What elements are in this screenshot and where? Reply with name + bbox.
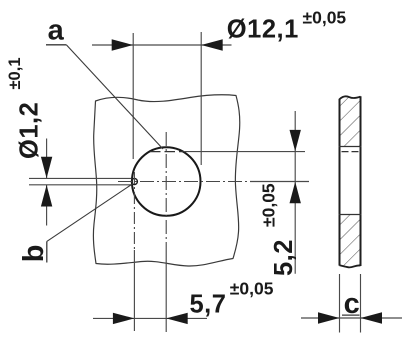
vertical centerline of big circle (dash-dot) [165,132,167,250]
arrow 5,7 right [166,313,188,324]
arrow Ø12,1 left [112,39,134,50]
svg-text:Ø1,2: Ø1,2 [15,102,43,159]
side view hole bottom edge [339,214,362,216]
side view hole top edge [339,146,362,148]
flat chord (hidden edge, dashed) [150,151,184,153]
dimension line 5,7 (bottom) [93,317,207,319]
extension of centerline to 5,2 dimension [250,181,309,183]
side view flat hidden edge (dashed) [342,151,362,153]
extension line left (Ø12,1) [132,33,134,159]
dimension line Ø12,1 [92,44,232,46]
svg-text:±0,05: ±0,05 [230,278,274,298]
svg-text:b: b [18,245,50,263]
arrow 5,7 left [113,313,134,324]
arrow c right [361,312,383,323]
vertical centerline extension of big circle to 5,7 dimension [165,250,167,332]
leader line b [47,184,133,242]
side view right edge [360,96,362,266]
side view bottom break edge (wavy) [340,265,361,267]
extension line c right [360,274,362,333]
svg-text:±0,1: ±0,1 [6,58,24,90]
underline of label c [342,314,360,316]
arrow c left [318,312,340,323]
panel outline (front view, wavy break edges) [93,95,239,266]
small hole bottom tangent extension line [29,184,131,186]
svg-text:±0,05: ±0,05 [259,183,279,227]
dimension line 5,2 (vertical, right) [294,111,296,274]
arrow Ø1,2 down [41,157,52,179]
side view: top hatched section [340,96,361,146]
leader line a [66,45,163,149]
svg-text:5,7: 5,7 [190,291,227,319]
arrow 5,2 down [290,130,301,152]
arrow 5,2 up [290,182,301,204]
underline of label a [46,44,66,46]
side view left edge [339,99,341,266]
side view top break edge (wavy) [340,96,361,99]
arrow Ø12,1 right [201,39,223,50]
vertical centerline extension of small hole to 5,7 dimension [133,250,135,331]
svg-text:5,2: 5,2 [270,239,298,276]
extension line c left [339,274,341,333]
small hole top tangent extension line [29,177,131,179]
dimension line c [301,317,402,319]
svg-text:Ø12,1: Ø12,1 [227,15,299,43]
dimension line Ø1,2 (vertical, left) [46,139,48,179]
svg-text:a: a [48,15,65,47]
underline of label b (vertical) [46,241,48,262]
extension line right (Ø12,1) [200,32,202,165]
side view: bottom hatched section [340,215,361,268]
svg-text:c: c [344,288,360,320]
svg-text:±0,05: ±0,05 [303,7,347,27]
extension line from flat to 5,2 dimension [184,151,305,153]
vertical centerline of small hole (dash-dot) [133,172,135,250]
hole Ø1,2 (small hole) [131,179,137,185]
hole Ø12,1 (big circle) [132,147,201,216]
arrow Ø1,2 up [41,185,52,207]
horizontal centerline (dash-dot) [118,181,250,183]
